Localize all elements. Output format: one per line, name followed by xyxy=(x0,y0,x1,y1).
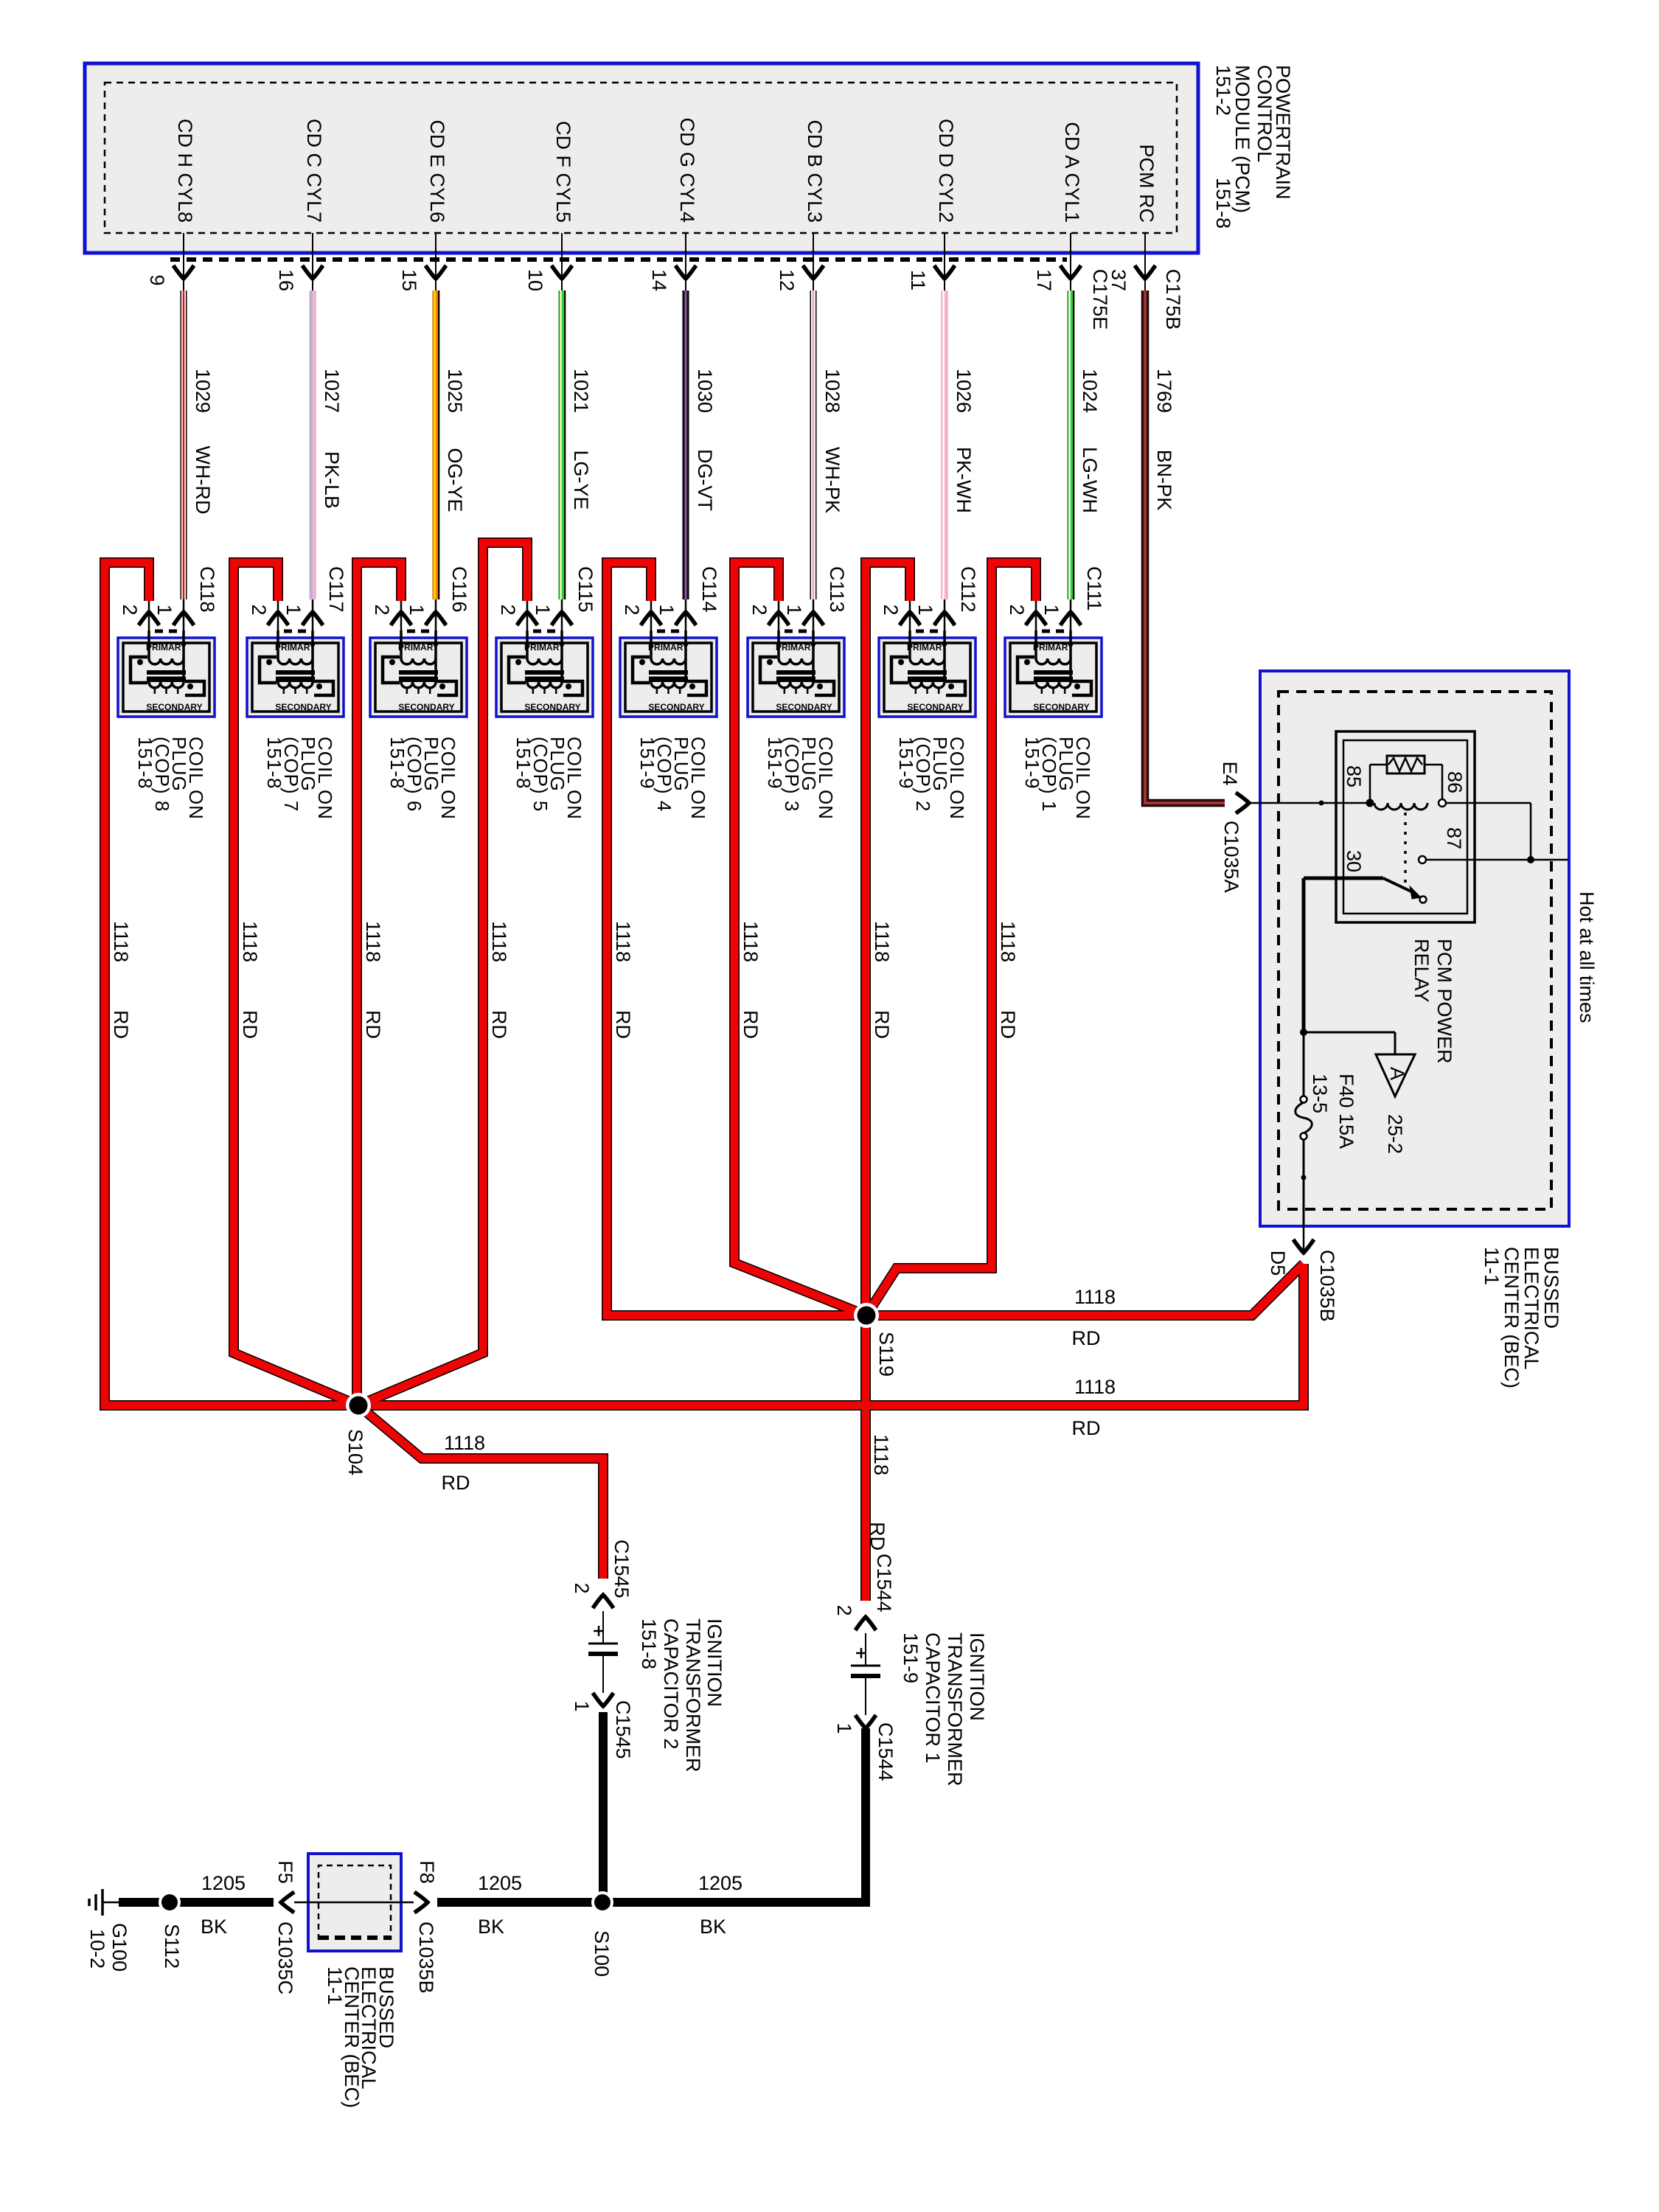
relay terminal 87 label xyxy=(1443,827,1465,849)
svg-text:2: 2 xyxy=(621,604,643,615)
svg-text:F8: F8 xyxy=(416,1860,438,1884)
svg-text:PK-LB: PK-LB xyxy=(321,451,343,509)
connector E4 arrow xyxy=(1236,793,1249,813)
coil 5 pin 2 label xyxy=(497,604,519,615)
coil 2 pin 2 label xyxy=(880,604,902,615)
svg-text:CD F CYL5: CD F CYL5 xyxy=(552,121,574,223)
PCM pin 37 lead and terminal arrow xyxy=(1135,233,1155,291)
wire label 1024 xyxy=(1079,369,1101,413)
svg-text:151-8: 151-8 xyxy=(638,1618,660,1669)
svg-text:151-8: 151-8 xyxy=(386,737,408,790)
svg-text:1030: 1030 xyxy=(694,369,716,413)
connector label C1035A xyxy=(1220,821,1242,893)
wire 1769 BN-PK xyxy=(1141,291,1150,799)
label 1118 RD on COP2 red wire xyxy=(871,921,893,1039)
svg-text:2: 2 xyxy=(1006,604,1028,615)
svg-text:151-9: 151-9 xyxy=(764,737,786,790)
svg-text:1118: 1118 xyxy=(870,1434,892,1475)
connector label C1035C xyxy=(274,1921,296,1994)
svg-text:IGNITION: IGNITION xyxy=(966,1632,988,1721)
connector label C115 xyxy=(574,566,597,613)
splice S119 xyxy=(854,1303,879,1328)
svg-text:LG-YE: LG-YE xyxy=(570,450,592,509)
wire color label WH-RD xyxy=(192,446,214,515)
coil 8 pin 2 label xyxy=(119,604,141,615)
label 1118 RD (S119 to C1544 run) xyxy=(866,1434,892,1551)
PCM pin 10 lead and terminal arrow xyxy=(552,233,572,291)
wire label 1029 xyxy=(192,369,214,413)
svg-text:1024: 1024 xyxy=(1079,369,1101,413)
connector label C1544 (top) xyxy=(873,1554,895,1613)
connector label E4 xyxy=(1219,761,1241,785)
PCM pin 16 lead and terminal arrow xyxy=(302,233,323,291)
svg-text:CAPACITOR 2: CAPACITOR 2 xyxy=(660,1618,682,1750)
svg-text:10: 10 xyxy=(524,269,546,291)
connector label C116 xyxy=(448,566,470,613)
connector D5 C1035B arrow xyxy=(1293,1226,1314,1253)
svg-text:PRIMARY: PRIMARY xyxy=(275,642,316,653)
splice S104 xyxy=(346,1393,371,1418)
svg-text:TRANSFORMER: TRANSFORMER xyxy=(944,1632,966,1787)
capacitor pin 2 label xyxy=(833,1604,855,1615)
svg-text:BK: BK xyxy=(201,1916,227,1938)
svg-text:151-2: 151-2 xyxy=(1212,65,1234,116)
red power wires 1118 RD (black outline layer) xyxy=(105,543,1304,1601)
BEC internal link F5-F8 xyxy=(294,1902,414,1904)
coil on plug (COP) 1 xyxy=(1005,599,1102,717)
svg-text:1: 1 xyxy=(153,604,175,615)
pin number 15 xyxy=(398,269,420,291)
pin number 17 xyxy=(1033,269,1055,291)
svg-text:S112: S112 xyxy=(161,1924,183,1969)
svg-text:F40 15A: F40 15A xyxy=(1335,1074,1357,1149)
coil on plug (COP) 4 xyxy=(620,599,717,717)
svg-text:11: 11 xyxy=(907,270,929,291)
svg-text:2: 2 xyxy=(880,604,902,615)
connector label C1545 (bottom) xyxy=(612,1700,634,1759)
bussed electrical center (BEC) box (bottom) xyxy=(308,1854,401,1951)
svg-text:2: 2 xyxy=(119,604,141,615)
svg-text:TRANSFORMER: TRANSFORMER xyxy=(682,1618,704,1773)
svg-text:RD: RD xyxy=(1072,1327,1101,1349)
coil on plug (COP) 7 xyxy=(247,599,344,717)
black ground wire from C1545 pin 1 xyxy=(599,1712,608,1902)
coil on plug (COP) 3 xyxy=(748,599,844,717)
relay coil winding xyxy=(1366,799,1447,810)
coil 2 pin 1 label xyxy=(914,604,936,615)
label 1118 RD on COP8 red wire xyxy=(110,921,132,1039)
svg-text:C112: C112 xyxy=(957,566,979,613)
svg-text:85: 85 xyxy=(1343,765,1365,787)
pin number 16 xyxy=(275,269,297,291)
svg-text:C1544: C1544 xyxy=(874,1722,897,1781)
PCM pin label CD F CYL5 xyxy=(552,121,574,223)
coil 1 name label xyxy=(1021,737,1094,820)
connector label C113 xyxy=(826,566,848,613)
svg-text:RD: RD xyxy=(1072,1417,1101,1439)
svg-text:10-2: 10-2 xyxy=(86,1929,108,1969)
wire 1024 LG-WH xyxy=(1070,291,1074,599)
capacitor pin 2 label xyxy=(571,1582,593,1593)
svg-text:PK-WH: PK-WH xyxy=(953,447,975,513)
svg-text:D5: D5 xyxy=(1267,1251,1289,1276)
svg-text:1769: 1769 xyxy=(1153,369,1175,413)
svg-text:C113: C113 xyxy=(826,566,848,613)
wire 1030 DG-VT xyxy=(683,291,689,599)
wire label 1030 xyxy=(694,369,716,413)
coil 3 pin 2 label xyxy=(748,604,771,615)
coil 3 name label xyxy=(764,737,837,820)
svg-text:30: 30 xyxy=(1343,850,1365,872)
svg-text:CENTER (BEC): CENTER (BEC) xyxy=(1500,1247,1523,1388)
connector label F5 xyxy=(274,1860,296,1884)
coil 8 pin 1 label xyxy=(153,604,175,615)
svg-text:2: 2 xyxy=(833,1604,855,1615)
relay contact 87 xyxy=(1419,803,1568,863)
splice S104 label xyxy=(344,1429,366,1475)
coil 7 pin 2 label xyxy=(248,604,270,615)
coil 7 pin 1 label xyxy=(282,604,305,615)
svg-text:1: 1 xyxy=(406,604,428,615)
PCM pin label CD A CYL1 xyxy=(1061,122,1083,223)
svg-text:1118: 1118 xyxy=(362,921,384,962)
svg-text:1118: 1118 xyxy=(488,921,510,962)
wire color label DG-VT xyxy=(694,449,716,511)
label 1118 RD on COP6 red wire xyxy=(362,921,384,1039)
svg-text:S119: S119 xyxy=(875,1332,897,1377)
svg-text:151-8: 151-8 xyxy=(1212,178,1234,229)
connector label C117 xyxy=(325,566,347,613)
connector label C112 xyxy=(957,566,979,613)
svg-text:1118: 1118 xyxy=(740,921,762,962)
wire 1025 OG-YE xyxy=(435,291,439,599)
svg-text:RD: RD xyxy=(740,1010,762,1039)
svg-text:RD: RD xyxy=(362,1010,384,1039)
black ground wire from C1544 pin 1 to bus xyxy=(607,1728,866,1902)
connector label C111 xyxy=(1083,566,1105,611)
BEC label (bottom) xyxy=(324,1966,397,2108)
svg-text:C114: C114 xyxy=(698,566,720,613)
svg-text:37: 37 xyxy=(1107,269,1130,291)
PCM pin 17 lead and terminal arrow xyxy=(1060,233,1081,291)
svg-text:1: 1 xyxy=(532,604,554,615)
connector label C1545 (top) xyxy=(611,1540,633,1599)
PCM pin label PCM RC xyxy=(1135,145,1158,223)
svg-text:2: 2 xyxy=(497,604,519,615)
pin number 12 xyxy=(776,269,798,291)
svg-text:PRIMARY: PRIMARY xyxy=(648,642,689,653)
svg-text:SECONDARY: SECONDARY xyxy=(398,702,454,712)
coil 2 name label xyxy=(895,737,968,820)
svg-text:S100: S100 xyxy=(591,1930,613,1977)
wire 1021 LG-YE xyxy=(561,291,566,599)
svg-text:PRIMARY: PRIMARY xyxy=(398,642,439,653)
svg-text:DG-VT: DG-VT xyxy=(694,449,716,511)
svg-text:11-1: 11-1 xyxy=(324,1966,346,2005)
svg-text:SECONDARY: SECONDARY xyxy=(524,702,580,712)
svg-text:151-8: 151-8 xyxy=(512,737,535,790)
svg-text:2: 2 xyxy=(571,1582,593,1593)
svg-text:PRIMARY: PRIMARY xyxy=(146,642,187,653)
svg-text:15: 15 xyxy=(398,269,420,291)
PCM pin label CD H CYL8 xyxy=(174,119,196,223)
label 1205 BK (right) xyxy=(698,1872,742,1938)
svg-text:C1545: C1545 xyxy=(612,1700,634,1759)
wire color label BN-PK xyxy=(1153,450,1175,511)
PCM pin 12 lead and terminal arrow xyxy=(803,233,824,291)
fuse F40 15A xyxy=(1295,1096,1312,1227)
wire label 1026 xyxy=(953,369,975,413)
wire 1769 BN-PK horizontal run to BEC E4 xyxy=(1145,796,1225,803)
relay terminal 86 label xyxy=(1444,771,1466,793)
svg-text:C1544: C1544 xyxy=(873,1554,895,1613)
svg-text:F5: F5 xyxy=(274,1860,296,1884)
ground label G100 10-2 xyxy=(86,1923,131,1972)
pin number 14 xyxy=(648,269,670,291)
wire label 1025 xyxy=(444,369,466,413)
svg-text:25-2: 25-2 xyxy=(1384,1114,1406,1154)
red wire 1118 from COP5 pin2 to S104 xyxy=(358,543,527,1405)
PCM pin 15 lead and terminal arrow xyxy=(425,233,446,291)
PCM power relay outline xyxy=(1336,731,1475,922)
bussed electrical center (BEC) box xyxy=(1260,671,1569,1226)
black ground bus wire 1205 S112 to F5 xyxy=(119,1898,274,1907)
svg-text:RD: RD xyxy=(442,1472,470,1494)
svg-text:C1035B: C1035B xyxy=(1316,1250,1338,1322)
label 1205 BK (left) xyxy=(201,1872,246,1938)
splice S112 label xyxy=(161,1924,183,1969)
PCM pin label CD D CYL2 xyxy=(935,119,957,223)
svg-text:CD C CYL7: CD C CYL7 xyxy=(303,119,325,223)
svg-text:CD H CYL8: CD H CYL8 xyxy=(174,119,196,223)
red wire 1118 from COP7 pin2 to S104 xyxy=(234,563,358,1405)
connector label C118 xyxy=(196,566,218,613)
svg-text:RD: RD xyxy=(871,1010,893,1039)
wire 1029 WH-RD xyxy=(181,291,187,599)
svg-text:WH-RD: WH-RD xyxy=(192,446,214,515)
svg-text:C116: C116 xyxy=(448,566,470,613)
svg-text:1205: 1205 xyxy=(478,1872,522,1894)
svg-text:CD D CYL2: CD D CYL2 xyxy=(935,119,957,223)
relay switch blade and terminal 30 xyxy=(1300,874,1427,903)
splice S119 label xyxy=(875,1332,897,1377)
svg-text:151-9: 151-9 xyxy=(636,737,658,790)
coil 4 pin 2 label xyxy=(621,604,643,615)
svg-text:151-9: 151-9 xyxy=(900,1632,922,1683)
coil 4 name label xyxy=(636,737,709,820)
svg-text:151-8: 151-8 xyxy=(263,737,285,790)
coil 1 pin 1 label xyxy=(1040,604,1062,615)
wire label 1027 xyxy=(321,369,343,413)
pin number 9 xyxy=(146,274,168,285)
svg-text:E4: E4 xyxy=(1219,761,1241,785)
svg-text:C1035B: C1035B xyxy=(415,1921,437,1994)
label 1118 RD on COP4 red wire xyxy=(612,921,634,1039)
ground G100 xyxy=(89,1889,120,1916)
pin number 37 xyxy=(1107,269,1130,291)
svg-text:RD: RD xyxy=(866,1522,888,1551)
svg-text:1118: 1118 xyxy=(871,921,893,962)
svg-text:2: 2 xyxy=(371,604,393,615)
svg-text:1: 1 xyxy=(571,1700,593,1711)
PCM pin label CD E CYL6 xyxy=(426,119,448,223)
svg-text:RELAY: RELAY xyxy=(1411,939,1433,1003)
svg-text:1: 1 xyxy=(655,604,678,615)
svg-text:1118: 1118 xyxy=(239,921,261,962)
svg-text:RD: RD xyxy=(239,1010,261,1039)
coil 3 pin 1 label xyxy=(783,604,805,615)
red wire 1118 from COP3 pin2 to S119 xyxy=(734,563,866,1315)
wire 1027 PK-LB xyxy=(312,291,313,599)
relay name label PCM POWER RELAY xyxy=(1411,939,1455,1064)
svg-text:1118: 1118 xyxy=(110,921,132,962)
PCM pin label CD C CYL7 xyxy=(303,119,325,223)
svg-text:151-9: 151-9 xyxy=(895,737,917,790)
svg-text:SECONDARY: SECONDARY xyxy=(1033,702,1089,712)
coil on plug (COP) 5 xyxy=(496,599,593,717)
PCM pin label CD B CYL3 xyxy=(804,119,826,223)
svg-text:C117: C117 xyxy=(325,566,347,613)
splice S100 xyxy=(591,1891,613,1913)
svg-text:11-1: 11-1 xyxy=(1481,1247,1503,1285)
PCM pin 14 lead and terminal arrow xyxy=(675,233,696,291)
coil 1 pin 2 label xyxy=(1006,604,1028,615)
svg-text:SECONDARY: SECONDARY xyxy=(907,702,963,712)
connector label C1544 (bottom) xyxy=(874,1722,897,1781)
ignition transformer capacitor 2 (C1545) xyxy=(588,1595,618,1706)
svg-text:1025: 1025 xyxy=(444,369,466,413)
red wire 1118 from COP1 pin2 to S119 xyxy=(866,563,1036,1315)
wire label 1769 xyxy=(1153,369,1175,413)
svg-text:BK: BK xyxy=(700,1916,726,1938)
red wire 1118 from COP8 pin2 to S104/S119 bus xyxy=(105,563,1304,1405)
svg-text:17: 17 xyxy=(1033,269,1055,291)
coil 4 pin 1 label xyxy=(655,604,678,615)
svg-text:151-9: 151-9 xyxy=(1021,737,1043,790)
label 1118 RD on COP5 red wire xyxy=(488,921,510,1039)
svg-text:PRIMARY: PRIMARY xyxy=(907,642,947,653)
red wire 1118 from COP6 pin2 to S104 xyxy=(357,563,401,1405)
svg-text:1028: 1028 xyxy=(821,369,844,413)
connector label C1035B xyxy=(1316,1250,1338,1322)
wire color label PK-LB xyxy=(321,451,343,509)
connector label F8 xyxy=(416,1860,438,1884)
wire color label OG-YE xyxy=(444,448,466,512)
BEC internal feed from terminal 30 xyxy=(1300,878,1395,1099)
svg-text:CAPACITOR 1: CAPACITOR 1 xyxy=(922,1632,944,1764)
fusible element A (triangle) xyxy=(1376,1054,1415,1096)
svg-text:1021: 1021 xyxy=(570,369,592,413)
PCM pin 11 lead and terminal arrow xyxy=(934,233,955,291)
svg-text:CD E CYL6: CD E CYL6 xyxy=(426,119,448,223)
red wire 1118 from COP4 pin2 to S119 xyxy=(607,563,866,1315)
coil 5 pin 1 label xyxy=(532,604,554,615)
svg-text:13-5: 13-5 xyxy=(1309,1074,1331,1113)
svg-text:1205: 1205 xyxy=(201,1872,246,1894)
label 1118 RD (S104 to C1545 run) xyxy=(442,1432,486,1494)
svg-text:1118: 1118 xyxy=(1074,1376,1116,1398)
coil on plug (COP) 6 xyxy=(370,599,467,717)
label 1118 RD on COP7 red wire xyxy=(239,921,261,1039)
svg-text:A: A xyxy=(1386,1067,1408,1080)
svg-text:1: 1 xyxy=(833,1722,855,1733)
wire 1028 WH-PK xyxy=(810,291,817,599)
svg-text:16: 16 xyxy=(275,269,297,291)
splice S100 label xyxy=(591,1930,613,1977)
label 1118 RD (S104 bus run) xyxy=(1072,1376,1116,1439)
svg-text:1118: 1118 xyxy=(444,1432,485,1454)
wire label 1021 xyxy=(570,369,592,413)
coil 7 name label xyxy=(263,737,336,820)
svg-text:PRIMARY: PRIMARY xyxy=(524,642,565,653)
coil 6 pin 2 label xyxy=(371,604,393,615)
svg-text:1118: 1118 xyxy=(997,921,1019,962)
svg-text:14: 14 xyxy=(648,269,670,291)
splice S112 xyxy=(159,1891,181,1913)
pin number 11 xyxy=(907,270,929,291)
svg-text:BK: BK xyxy=(478,1916,504,1938)
connector label C175B xyxy=(1162,269,1184,330)
svg-text:PCM RC: PCM RC xyxy=(1135,145,1158,223)
Hot at all times label xyxy=(1576,891,1598,1023)
svg-text:C115: C115 xyxy=(574,566,597,613)
coil 6 name label xyxy=(386,737,459,820)
svg-text:9: 9 xyxy=(146,274,168,285)
svg-text:2: 2 xyxy=(248,604,270,615)
PCM pin label CD G CYL4 xyxy=(676,117,698,223)
PCM module box (POWERTRAIN CONTROL MODULE) xyxy=(85,63,1198,253)
svg-text:Hot at all times: Hot at all times xyxy=(1576,891,1598,1023)
svg-text:1205: 1205 xyxy=(698,1872,742,1894)
svg-text:86: 86 xyxy=(1444,771,1466,793)
wire color label PK-WH xyxy=(953,447,975,513)
svg-text:1: 1 xyxy=(783,604,805,615)
pin number 10 xyxy=(524,269,546,291)
svg-text:RD: RD xyxy=(997,1010,1019,1039)
fuse label F40 15A / 13-5 xyxy=(1309,1074,1357,1149)
label 25-2 xyxy=(1384,1114,1406,1154)
svg-text:12: 12 xyxy=(776,269,798,291)
svg-text:PCM POWER: PCM POWER xyxy=(1433,939,1455,1064)
wire color label LG-WH xyxy=(1079,447,1101,513)
svg-text:S104: S104 xyxy=(344,1429,366,1475)
wire label 1028 xyxy=(821,369,844,413)
connector F5 arrow xyxy=(281,1892,294,1913)
ignition transformer capacitor 1 (C1544) xyxy=(851,1617,880,1728)
wire color label LG-YE xyxy=(570,450,592,509)
svg-text:2: 2 xyxy=(748,604,771,615)
connector label D5 xyxy=(1267,1251,1289,1276)
label 1118 RD (S119 to C1035B run) xyxy=(1072,1286,1116,1349)
BEC label (right) xyxy=(1481,1247,1562,1388)
svg-text:BUSSED: BUSSED xyxy=(1540,1247,1562,1329)
svg-text:IGNITION: IGNITION xyxy=(703,1618,726,1707)
capacitor pin 1 label xyxy=(833,1722,855,1733)
connector C175E dashed line xyxy=(170,257,1067,262)
connector label C175E xyxy=(1089,269,1111,330)
coil 8 name label xyxy=(134,737,207,820)
capacitor 2 name label xyxy=(638,1618,726,1773)
svg-text:C1035A: C1035A xyxy=(1220,821,1242,893)
svg-text:C118: C118 xyxy=(196,566,218,613)
svg-text:CD B CYL3: CD B CYL3 xyxy=(804,119,826,223)
relay armature dotted link xyxy=(1404,813,1407,885)
red wire 1118 from S119 to BEC C1035B D5 xyxy=(866,1264,1304,1315)
svg-text:CD A CYL1: CD A CYL1 xyxy=(1061,122,1083,223)
svg-text:C111: C111 xyxy=(1083,566,1105,611)
coil 5 name label xyxy=(512,737,585,820)
capacitor pin 1 label xyxy=(571,1700,593,1711)
